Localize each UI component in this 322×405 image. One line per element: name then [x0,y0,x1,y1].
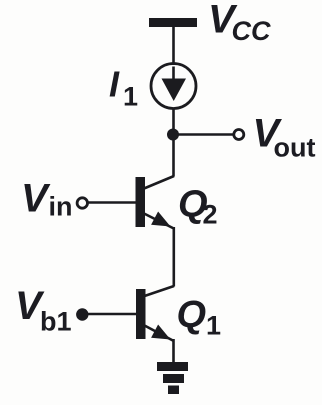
current source I1 arrowhead [162,79,187,102]
Q1 collector diagonal [145,286,175,296]
label Q2 [178,184,218,230]
svg-text:CC: CC [232,16,271,46]
label Vb1 [15,284,72,337]
transistor Q1 emitter arrowhead [151,325,170,340]
svg-text:in: in [49,192,73,222]
svg-text:b1: b1 [40,307,72,337]
Vb1 terminal dot [76,308,88,320]
current source I1 arrow shaft [172,67,175,83]
Vin terminal open circle [77,198,87,208]
ground symbol bar 3 [168,386,179,395]
wire node to Vout terminal [173,133,234,136]
svg-text:Q: Q [177,294,207,336]
Q1 emitter diagonal [145,326,174,342]
svg-text:2: 2 [203,200,218,230]
ground symbol bar 1 [157,362,188,371]
Q2 collector diagonal [144,176,174,189]
svg-text:1: 1 [206,311,221,341]
VCC supply bar [149,18,197,27]
wire Vin terminal to Q2 base [88,201,137,204]
Q2 emitter diagonal [144,214,174,229]
transistor Q2 emitter arrowhead [151,212,170,227]
wire Q2 emitter to Q1 collector [173,227,176,287]
wire VCC bar to current source [172,27,175,65]
label VCC [208,0,271,46]
svg-text:out: out [274,133,316,163]
transistor Q2 base bar [136,177,146,227]
wire Vb1 terminal to Q1 base [88,313,137,316]
wire node down to Q2 collector [172,135,175,177]
Vout terminal open circle [234,130,244,140]
label Q1 [177,294,222,341]
current source I1 circle [151,64,196,109]
svg-text:I: I [109,64,120,105]
wire current source to output node [172,109,175,139]
svg-text:V: V [21,177,51,221]
label I1 [109,64,138,112]
output node dot [167,129,179,141]
label Vin [21,177,73,222]
transistor Q1 base bar [136,289,146,339]
svg-text:1: 1 [123,82,138,112]
ground symbol bar 2 [163,374,184,383]
wire Q1 emitter to ground [172,339,175,363]
label Vout [253,112,316,163]
